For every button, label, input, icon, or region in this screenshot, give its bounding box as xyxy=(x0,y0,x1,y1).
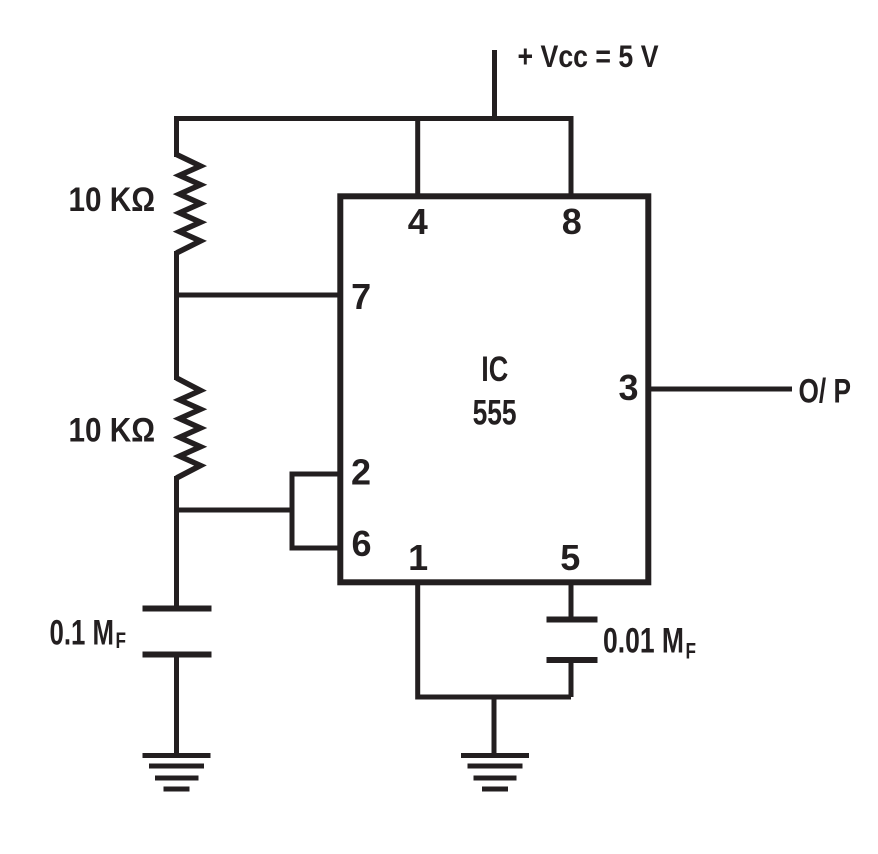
svg-text:0.1 M: 0.1 M xyxy=(50,614,115,653)
svg-text:1: 1 xyxy=(408,537,428,578)
wire: node to pins 2/6 bracket xyxy=(177,508,293,513)
wire: ground 2 stub xyxy=(492,697,497,753)
svg-text:F: F xyxy=(686,639,697,664)
wire: top rail (R1 top corner to pin 8 corner drop) xyxy=(177,119,572,199)
svg-text:O/ P: O/ P xyxy=(799,373,852,411)
wire: pin 4 stub xyxy=(415,119,420,199)
wire: R1 bottom to R2 top xyxy=(174,251,179,380)
svg-text:7: 7 xyxy=(351,276,371,317)
svg-text:555: 555 xyxy=(473,394,517,433)
wire: Vcc supply stub xyxy=(492,50,497,119)
capacitor C2 0.01MF plates xyxy=(547,620,598,661)
svg-text:3: 3 xyxy=(618,367,638,408)
svg-text:8: 8 xyxy=(562,201,582,242)
wire: C1 bottom to ground xyxy=(174,657,179,753)
resistor R1 10 KOhm xyxy=(177,155,201,254)
wire: pin 3 output xyxy=(648,387,792,392)
ground G1 xyxy=(143,756,211,790)
wire: C2 bottom to bottom rail xyxy=(569,662,574,697)
wire: bracket to pin 2 and pin 6 xyxy=(292,474,340,548)
svg-text:10 KΩ: 10 KΩ xyxy=(69,181,156,219)
svg-text:F: F xyxy=(116,628,127,653)
capacitor C1 0.1MF plates xyxy=(143,609,212,655)
svg-text:2: 2 xyxy=(351,452,371,493)
svg-text:6: 6 xyxy=(351,523,371,564)
wire: pin 7 xyxy=(177,293,341,298)
svg-text:0.01 M: 0.01 M xyxy=(603,622,684,661)
wire: pin 1 stub and bottom rail xyxy=(418,582,571,697)
wire: pin 5 stub xyxy=(569,582,574,617)
ground G2 xyxy=(461,756,529,790)
resistor R2 10 KOhm xyxy=(177,378,201,478)
svg-text:IC: IC xyxy=(481,350,508,389)
svg-text:4: 4 xyxy=(408,201,428,242)
svg-text:+ Vcc = 5 V: + Vcc = 5 V xyxy=(518,38,659,74)
IC U1 555 box xyxy=(340,196,648,582)
svg-text:10 KΩ: 10 KΩ xyxy=(69,412,156,450)
wire: R2 bottom to C1 top (node with pin 2/6 branch) xyxy=(174,476,179,606)
svg-text:5: 5 xyxy=(560,537,580,578)
